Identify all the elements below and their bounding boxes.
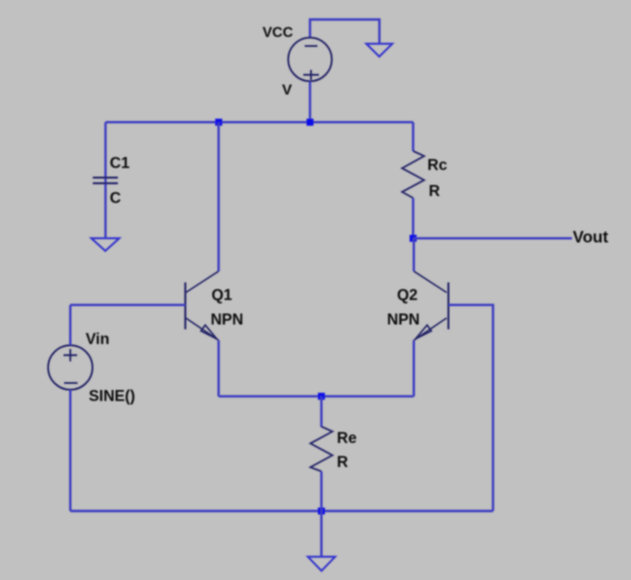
svg-text:V: V	[282, 81, 292, 98]
wire Vin top	[69, 305, 71, 345]
wire Vin bottom	[69, 390, 71, 511]
wire VCC bottom	[309, 81, 311, 122]
ground flag C1	[91, 238, 119, 251]
svg-text:Re: Re	[337, 430, 357, 447]
svg-text:NPN: NPN	[211, 311, 244, 328]
wire Q2 collector	[413, 238, 415, 271]
junction node emitter rail / Re	[318, 393, 325, 400]
resistor Rc	[402, 151, 424, 198]
svg-text:Vin: Vin	[86, 331, 110, 348]
wire Vout	[413, 237, 572, 239]
ground flag top	[366, 44, 392, 57]
transistor Q2	[414, 271, 449, 340]
wire top rail	[106, 121, 414, 123]
capacitor C1	[93, 178, 118, 184]
wire VCC top to ground flag	[310, 20, 379, 44]
wire Q1 collector	[217, 122, 219, 271]
voltage source V (VCC symbol)	[288, 38, 332, 82]
wire Rc bottom stub	[412, 198, 414, 238]
junction node top rail / Q1 collector	[215, 119, 222, 126]
wire Q1 base	[70, 304, 185, 306]
svg-text:C: C	[110, 190, 121, 207]
wire ground stub bottom	[320, 511, 322, 557]
svg-text:Vout: Vout	[573, 229, 609, 247]
resistor Re	[310, 427, 332, 472]
wire Re bottom stub	[320, 471, 322, 511]
ground flag bottom	[308, 557, 335, 571]
wire Q1 emitter	[217, 340, 219, 396]
transistor Q1	[185, 271, 218, 340]
wire Q2 emitter	[413, 340, 415, 396]
wire bottom rail	[70, 510, 493, 512]
svg-text:Q2: Q2	[397, 287, 418, 304]
svg-text:VCC: VCC	[263, 25, 294, 41]
junction node bottom rail / Re / ground	[318, 508, 325, 515]
voltage source Vin	[48, 345, 92, 389]
svg-text:R: R	[429, 183, 440, 200]
junction node top rail / VCC	[307, 119, 314, 126]
svg-text:C1: C1	[110, 155, 130, 172]
wire Rc top stub	[412, 122, 414, 151]
svg-text:Q1: Q1	[212, 287, 233, 304]
wire emitter rail	[219, 395, 414, 397]
svg-text:SINE(): SINE()	[89, 388, 136, 405]
wire Re top stub	[320, 396, 322, 427]
wire C1 branch	[104, 122, 106, 238]
junction node Vout	[410, 235, 417, 242]
wire Q2 base	[448, 305, 493, 511]
svg-text:Rc: Rc	[427, 157, 447, 174]
svg-text:R: R	[337, 454, 348, 471]
svg-text:NPN: NPN	[387, 312, 420, 329]
